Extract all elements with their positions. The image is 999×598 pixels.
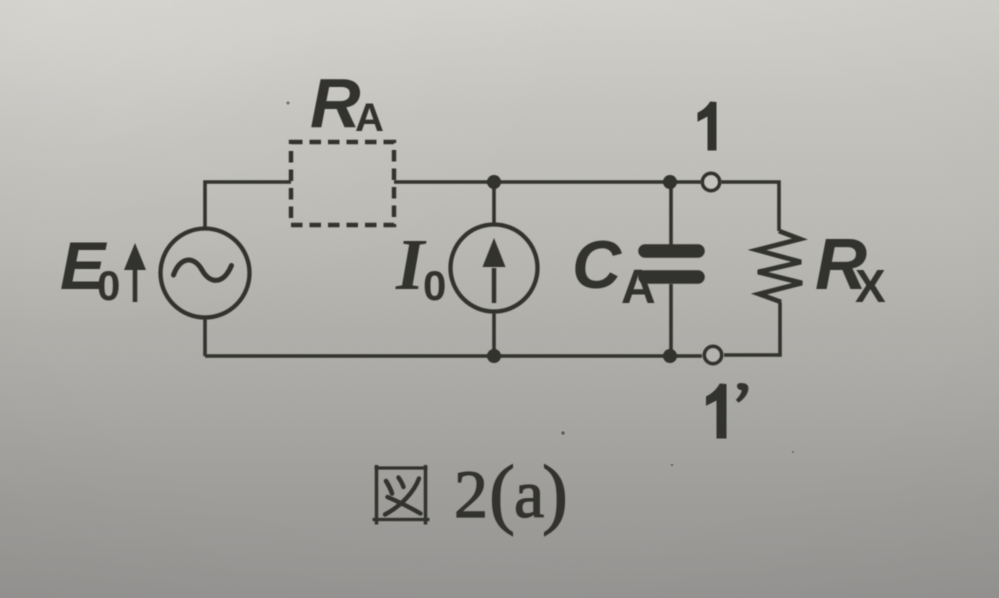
arrow inside I0	[492, 268, 496, 303]
wire: I0 top lead	[492, 182, 496, 225]
label terminal 1	[698, 102, 717, 151]
junction dot bottom at I0	[487, 349, 501, 363]
junction dot top at CA	[663, 175, 677, 189]
source E0 circle	[161, 229, 250, 318]
capacitor CA bottom lead	[669, 284, 673, 356]
label terminal 1'	[706, 384, 727, 439]
svg-text:a: a	[514, 456, 544, 532]
svg-text:0: 0	[97, 262, 120, 309]
svg-text:2: 2	[454, 456, 488, 532]
paper speck	[286, 101, 289, 104]
svg-text:A: A	[621, 261, 656, 314]
svg-text:R: R	[310, 64, 361, 142]
paper speck	[792, 451, 795, 454]
wire: RX bottom corner to terminal 1'	[724, 302, 780, 355]
svg-text:): )	[542, 449, 568, 536]
wire: E0 bottom lead	[203, 318, 207, 356]
svg-text:(: (	[489, 449, 515, 536]
kanji inner strokes	[386, 481, 392, 494]
wire: bottom rail	[205, 354, 702, 358]
junction dot bottom at CA	[663, 349, 677, 363]
wire top-left: E0 top to dashed box	[205, 182, 291, 228]
capacitor CA top lead	[669, 182, 673, 245]
svg-text:X: X	[855, 260, 886, 312]
capacitor CA plates	[645, 251, 698, 277]
svg-text:A: A	[355, 96, 384, 140]
source I0 circle	[451, 225, 538, 312]
paper speck	[671, 464, 674, 467]
wire: box right to terminal 1	[394, 180, 701, 184]
resistor RA (dashed box)	[291, 142, 394, 225]
wire: I0 bottom lead	[492, 312, 496, 356]
paper speck	[561, 431, 565, 435]
junction dot top at I0	[487, 175, 501, 189]
svg-text:0: 0	[423, 262, 446, 309]
arrow beside E0	[133, 266, 138, 302]
terminal 1 (open circle)	[702, 173, 719, 190]
sine symbol inside E0	[174, 260, 232, 280]
resistor RX zigzag	[757, 231, 802, 302]
caption kanji ZU (figure) box	[373, 465, 430, 525]
terminal 1' (open circle)	[704, 346, 721, 363]
svg-text:C: C	[572, 227, 622, 303]
wire: terminal 1 to RX top corner	[721, 182, 779, 231]
